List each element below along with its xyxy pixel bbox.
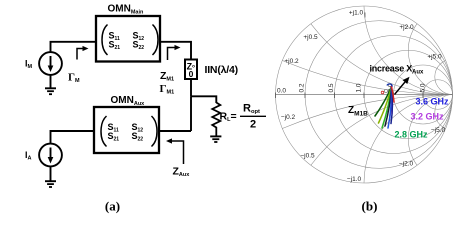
svg-text:+j0.5: +j0.5: [303, 34, 318, 41]
svg-text:−j0.2: −j0.2: [281, 114, 296, 121]
svg-text:OMNAux: OMNAux: [111, 95, 146, 107]
current source IM arrowhead: [48, 66, 54, 73]
resistance label 0.2: [299, 83, 306, 92]
svg-text:+j1.0: +j1.0: [349, 10, 364, 17]
fan stroke black-navy: [385, 87, 392, 127]
ground under IM: [45, 75, 56, 94]
svg-text:−j0.5: −j0.5: [300, 153, 315, 160]
svg-text:RL=: RL=: [220, 111, 237, 123]
wire OMN_Aux output to junction: [159, 130, 191, 132]
current source IA arrowhead: [48, 157, 54, 164]
wire OMN_Main output to Z0 line: [160, 42, 191, 60]
current source IM: [39, 52, 62, 75]
svg-text:ΓM: ΓM: [68, 72, 80, 84]
svg-text:(b): (b): [362, 199, 378, 214]
marker circle gray: [384, 89, 387, 92]
svg-text:2: 2: [250, 118, 256, 130]
OMN_Main box: [96, 16, 160, 62]
fan stroke light green: [382, 87, 392, 129]
svg-text:−j2.0: −j2.0: [399, 161, 414, 168]
fraction bar: [240, 115, 266, 117]
current source IA: [39, 144, 62, 167]
resistance label 5.0: [420, 83, 427, 92]
resistor RL: [212, 103, 220, 136]
svg-text:5.0: 5.0: [420, 83, 427, 92]
ground under RL: [210, 136, 221, 142]
ground under IA: [45, 166, 56, 187]
matrix bracket right U2: [152, 116, 158, 147]
svg-text:IM: IM: [25, 59, 33, 71]
wire junction to resistor: [191, 96, 216, 103]
transmission line Z0 box: [185, 60, 197, 80]
svg-text:0.0: 0.0: [277, 88, 286, 95]
svg-text:0.2: 0.2: [299, 83, 306, 92]
svg-text:OMNMain: OMNMain: [108, 4, 145, 16]
increase XAux arrow: [395, 82, 406, 95]
svg-text:1.0: 1.0: [356, 83, 363, 92]
svg-text:IIN(λ/4): IIN(λ/4): [205, 64, 238, 76]
svg-text:(a): (a): [105, 199, 120, 214]
svg-text:IA: IA: [25, 150, 32, 162]
svg-text:−j1.0: −j1.0: [347, 176, 362, 183]
resistance label 0.5: [328, 83, 335, 92]
svg-text:+j0.2: +j0.2: [284, 58, 299, 65]
resistance label 1.0: [356, 83, 363, 92]
matrix bracket right U1: [153, 25, 159, 56]
fan stroke red: [392, 87, 395, 103]
svg-text:−j5.0: −j5.0: [431, 127, 446, 134]
fan stroke navy: [391, 87, 392, 124]
smith chart top tick: [364, 13, 366, 18]
svg-text:increase XAux: increase XAux: [370, 64, 425, 76]
fan stroke magenta: [391, 87, 394, 114]
svg-text:ΓM1: ΓM1: [160, 83, 175, 95]
matrix bracket left U2: [101, 116, 107, 147]
smith chart axis ticks: [276, 93, 424, 99]
svg-text:ZM1B: ZM1B: [348, 105, 368, 117]
wire junction down to aux line: [190, 96, 192, 131]
resistance label 2.0: [388, 83, 395, 92]
ZAux arrow: [170, 141, 184, 164]
GammaM arrow: [77, 49, 85, 60]
matrix bracket left U1: [102, 25, 108, 56]
svg-text:0: 0: [189, 69, 194, 79]
wire IM to OMN_Main input: [51, 42, 97, 53]
fan stroke dark green: [375, 87, 392, 117]
svg-text:+j2.0: +j2.0: [399, 24, 414, 31]
wire IA to OMN_Aux input: [51, 131, 95, 144]
OMN_Aux box: [94, 107, 159, 153]
svg-text:0.5: 0.5: [328, 83, 335, 92]
svg-text:3.6 GHz: 3.6 GHz: [416, 97, 450, 107]
svg-text:ZM1: ZM1: [160, 70, 174, 82]
fan stroke blue: [388, 87, 392, 129]
wire Z0 to junction node: [190, 79, 192, 96]
svg-text:2.8 GHz: 2.8 GHz: [395, 130, 429, 140]
svg-text:3.2 GHz: 3.2 GHz: [411, 112, 445, 122]
svg-text:ZAux: ZAux: [173, 166, 191, 178]
ZM1 arrow: [168, 48, 177, 61]
marker circle red: [381, 91, 384, 94]
trajectory start curl: [387, 84, 392, 87]
fan stroke yellow-green: [379, 87, 392, 124]
fan stroke purple: [390, 87, 392, 118]
svg-text:+j5.0: +j5.0: [427, 54, 442, 61]
smith chart horizontal axis: [276, 94, 453, 96]
svg-text:Ropt: Ropt: [243, 102, 260, 115]
